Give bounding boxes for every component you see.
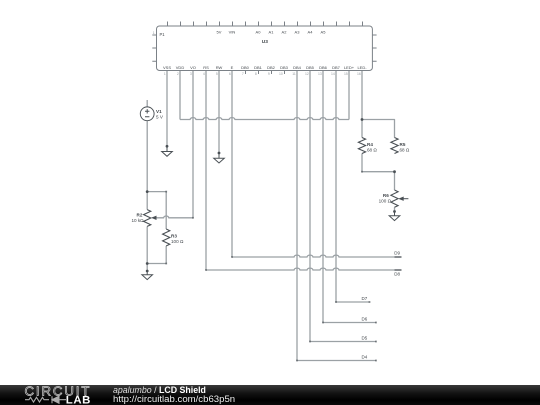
svg-text:VDD: VDD <box>176 65 185 70</box>
svg-text:DB6: DB6 <box>319 65 328 70</box>
wire RS pin4 down <box>205 71 207 271</box>
svg-text:LAB: LAB <box>66 395 91 405</box>
svg-text:15: 15 <box>344 72 348 76</box>
wire R2 wiper to VO with crossover <box>156 216 194 218</box>
logo diode <box>52 396 66 403</box>
svg-text:1: 1 <box>164 72 166 76</box>
svg-text:A2: A2 <box>282 29 288 34</box>
footer credits <box>113 386 235 405</box>
node LED-/R4/R5 junction <box>361 118 364 121</box>
svg-text:16: 16 <box>357 72 361 76</box>
svg-text:R6: R6 <box>383 193 389 198</box>
svg-text:68 Ω: 68 Ω <box>367 148 377 153</box>
U3 bottom pin numbers 1-16 <box>164 72 361 76</box>
svg-text:12: 12 <box>305 72 309 76</box>
svg-text:68 Ω: 68 Ω <box>400 148 410 153</box>
svg-text:DB2: DB2 <box>267 65 276 70</box>
svg-text:DB4: DB4 <box>293 65 302 70</box>
svg-text:10: 10 <box>279 72 283 76</box>
svg-text:7: 7 <box>242 72 244 76</box>
svg-text:VO: VO <box>190 65 196 70</box>
wire R4 bottom to R5 bottom junction <box>362 154 395 191</box>
wire VO pin3 down <box>192 71 194 218</box>
wire V1+ stub <box>146 100 148 107</box>
svg-text:2: 2 <box>177 72 179 76</box>
wire R3 bottom to R2 bottom <box>147 246 166 264</box>
svg-text:13: 13 <box>318 72 322 76</box>
wire DB6 pin13 down to net D6 <box>323 71 376 323</box>
svg-text:LED+: LED+ <box>344 65 355 70</box>
wire node to R3 top <box>147 192 166 229</box>
svg-text:8: 8 <box>255 72 257 76</box>
svg-text:9: 9 <box>268 72 270 76</box>
potentiometer R2 10kΩ <box>131 210 156 227</box>
wire LED- pin16 down to junction <box>361 71 363 120</box>
svg-text:D4: D4 <box>362 355 368 360</box>
svg-text:D7: D7 <box>362 296 368 301</box>
wire E to net D9 with crossovers <box>232 255 402 257</box>
svg-text:A0: A0 <box>256 29 262 34</box>
svg-text:DB7: DB7 <box>332 65 341 70</box>
svg-text:R3: R3 <box>171 233 177 238</box>
wire DB5 pin12 down to net D5 <box>310 71 376 342</box>
resistor R4 68Ω <box>358 138 377 154</box>
wire node to R2 top <box>146 192 148 210</box>
svg-text:LED-: LED- <box>357 65 367 70</box>
wire RS to net D8 with crossovers <box>206 268 402 270</box>
svg-text:14: 14 <box>331 72 335 76</box>
svg-text:E: E <box>231 65 234 70</box>
node R5/R6 bottom junction <box>393 170 396 173</box>
svg-text:5: 5 <box>216 72 218 76</box>
svg-text:4: 4 <box>203 72 205 76</box>
potentiometer R6 100Ω <box>379 190 409 207</box>
unconnected stubs DB0-DB3 <box>246 71 285 75</box>
svg-text:1: 1 <box>153 31 155 35</box>
resistor R3 100Ω <box>163 229 184 246</box>
logo resistor squiggle <box>25 397 49 402</box>
svg-text:RS: RS <box>203 65 209 70</box>
svg-text:R4: R4 <box>367 142 373 147</box>
ground at RW <box>214 152 225 163</box>
ground at VSS <box>162 145 173 156</box>
wire DB7 pin14 down to net D7 <box>336 71 370 303</box>
svg-text:U3: U3 <box>262 39 268 45</box>
wire E pin6 down <box>231 71 233 258</box>
svg-text:5V: 5V <box>217 29 222 34</box>
U3 bottom pin labels <box>163 65 367 70</box>
svg-text:6: 6 <box>229 72 231 76</box>
svg-text:DB5: DB5 <box>306 65 315 70</box>
svg-text:D5: D5 <box>362 336 368 341</box>
svg-text:D9: D9 <box>394 251 400 256</box>
wire R2 bottom down <box>146 226 148 271</box>
voltage source V1 5V <box>140 107 164 121</box>
svg-text:P1: P1 <box>160 32 166 37</box>
U3 top pin labels <box>217 29 327 34</box>
wire VDD pin2 down <box>179 71 181 120</box>
net flag D9 stub <box>395 256 402 258</box>
wire V1- down to R2/R3 node <box>146 121 148 192</box>
svg-text:10 kΩ: 10 kΩ <box>131 218 144 223</box>
svg-text:VIN: VIN <box>229 29 236 34</box>
wire VSS pin1 down to ground <box>166 71 168 147</box>
svg-text:100 Ω: 100 Ω <box>171 239 184 244</box>
wire DB4 pin11 down to net D4 <box>297 71 376 361</box>
svg-text:100 Ω: 100 Ω <box>379 198 392 203</box>
svg-text:R2: R2 <box>137 212 143 217</box>
svg-text:A5: A5 <box>321 29 327 34</box>
resistor R5 68Ω <box>391 138 410 154</box>
ground at R6 <box>389 210 400 221</box>
wire LED+ pin15 down to bus <box>348 71 350 120</box>
svg-text:DB1: DB1 <box>254 65 263 70</box>
net flag D8 stub <box>395 269 402 271</box>
svg-text:DB0: DB0 <box>241 65 250 70</box>
svg-text:D6: D6 <box>362 317 368 322</box>
ground at R2/R3 <box>142 270 153 280</box>
node V1/R2/R3 junction <box>146 190 149 193</box>
svg-text:5 V: 5 V <box>156 115 164 120</box>
U3 side pins <box>152 35 376 61</box>
svg-text:11: 11 <box>292 72 296 76</box>
CircuitLab logo <box>0 385 110 405</box>
svg-text:V1: V1 <box>156 109 162 114</box>
U3 top header pins <box>168 22 363 27</box>
IC U3 LCD module body <box>157 26 373 71</box>
wire R6 bottom to ground <box>394 207 396 211</box>
svg-text:3: 3 <box>190 72 192 76</box>
wire corner nodes <box>165 171 377 362</box>
wire RW pin5 down to ground <box>218 71 220 154</box>
svg-text:VSS: VSS <box>163 65 171 70</box>
wire 5V bus VDD to LED+ with crossovers <box>180 118 349 120</box>
svg-text:A3: A3 <box>295 29 301 34</box>
svg-text:DB3: DB3 <box>280 65 289 70</box>
wire junction to R4 top <box>361 120 363 138</box>
svg-text:A1: A1 <box>269 29 275 34</box>
svg-text:A4: A4 <box>308 29 314 34</box>
wire junction to R5 top <box>362 120 395 138</box>
svg-text:R5: R5 <box>400 142 406 147</box>
svg-text:RW: RW <box>216 65 223 70</box>
svg-text:D8: D8 <box>394 272 400 277</box>
footer bar <box>0 385 540 405</box>
node R2/R3 bottom junction <box>146 262 149 265</box>
